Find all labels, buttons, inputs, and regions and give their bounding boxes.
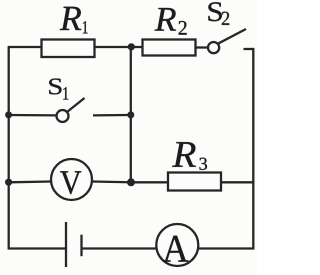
wire top left segment [8,46,42,48]
node dot V branch left [5,179,12,186]
wire V to node [92,180,131,183]
wire right vertical [252,48,254,249]
switch S1 pivot circle [57,110,69,122]
wire R3 to right [221,181,254,183]
wire battery to ammeter [82,247,158,249]
wire bottom left segment [8,247,66,249]
wire middle vertical [130,47,132,182]
switch S2 pivot circle [208,42,219,53]
wire S2 contact stub [244,48,254,50]
wire S1 branch left [9,114,57,117]
wire ammeter to right [198,247,255,249]
label R3 letter R (italic) [172,142,196,167]
label R2 letter R (italic) [155,8,176,31]
switch S2 lever [218,29,246,44]
wire left vertical [8,48,10,249]
label S1 letter S [49,79,61,95]
node dot S1 branch right [127,111,134,118]
label R3 subscript 3 [200,158,208,170]
resistor R3 [168,173,221,191]
label R1 subscript 1 [83,21,88,33]
wire S1 branch right [93,114,131,117]
wire node to R3 [131,181,168,183]
node dot top (R1/R2 junction) [128,43,135,50]
wire R2 to S2 [196,46,209,48]
node dot R3 branch [127,178,135,186]
voltmeter circle [51,159,92,200]
battery long plate [65,222,67,267]
label S2 letter S [208,2,221,21]
resistor R1 [42,40,95,58]
voltmeter letter V [60,171,81,194]
label S1 subscript 1 [63,87,68,99]
label R2 subscript 2 [179,21,187,35]
ammeter circle [156,224,198,266]
switch S1 lever [67,98,85,112]
label S2 subscript 2 [222,12,229,25]
label R1 letter R (italic) [60,7,81,30]
node dot S1 branch left [5,111,12,118]
battery short plate [80,235,82,257]
wire V branch left [9,180,52,183]
ammeter letter A [163,236,189,262]
wire R1 to R2 [95,46,143,48]
resistor R2 [143,40,196,56]
